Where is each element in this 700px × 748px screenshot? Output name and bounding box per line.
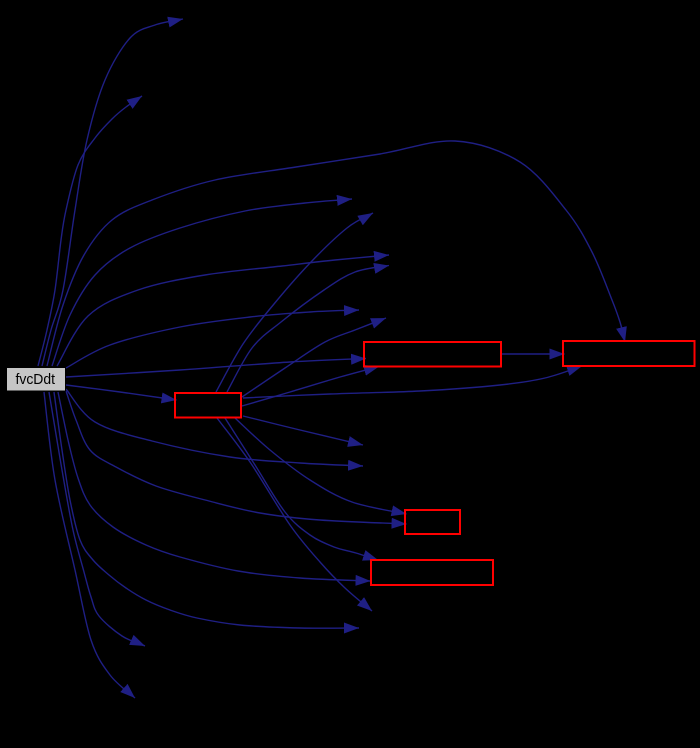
edge hub->boxA (bottom) [242, 367, 379, 407]
edge hub->arrow2 [216, 213, 373, 392]
edge fvcDdt->arrowBL1 [49, 392, 145, 646]
box small (red) [405, 510, 460, 534]
edge fvcDdt->boxB (long top curve) [47, 141, 625, 366]
edge fvcDdt->top2 [38, 96, 142, 366]
edge hub->mid1 [243, 416, 363, 445]
box hub (red) [175, 393, 241, 418]
edge fvcDdt->arrowB2 [54, 392, 359, 628]
box C (red) [371, 560, 493, 585]
edge hub->boxC (diag) [225, 418, 378, 560]
edge hub->arrow6 [242, 318, 386, 397]
edge fvcDdt->arrow5 [66, 310, 359, 368]
box A (red) [364, 342, 501, 367]
node fvcDdt (grey) [7, 368, 66, 392]
edge fvcDdt->smallbox [66, 391, 407, 524]
edge fvcDdt->arrow3 [57, 255, 389, 366]
edge fvcDdt->mid2 [66, 389, 363, 466]
edge hub->arrowB1 [217, 418, 372, 611]
edge fvcDdt->boxC [58, 392, 371, 581]
edge hub->smallbox (diag) [235, 418, 407, 514]
edge fvcDdt->hub [66, 385, 177, 400]
svg-text:fvcDdt: fvcDdt [16, 371, 56, 388]
edge fvcDdt->arrowBL2 [44, 392, 135, 698]
edge hub->arrow4 [227, 266, 389, 393]
edge fvcDdt->top1 [42, 19, 183, 366]
edge boxA->boxB [501, 353, 565, 355]
edge hub->boxB (bottom curve) [243, 366, 582, 398]
edge fvcDdt->boxA [66, 359, 366, 378]
edge fvcDdt->arrow1 [52, 199, 352, 366]
box B (red) [563, 341, 695, 366]
